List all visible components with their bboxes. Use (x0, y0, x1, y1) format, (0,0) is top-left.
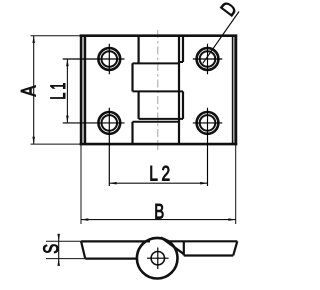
hole top-right inner (200, 51, 216, 67)
hole top-right outer (197, 48, 219, 70)
dimension B arrow left (81, 218, 88, 221)
hole top-left crosshair (63, 44, 125, 75)
hole top-left inner (102, 51, 118, 67)
dimension S arrow top (57, 234, 60, 241)
dimension A arrow down (32, 137, 35, 144)
profile right bar end slant (233, 241, 237, 255)
plate bottom edge (80, 143, 238, 146)
profile left bar bottom edge (85, 258, 137, 260)
hole bottom-right inner (200, 115, 216, 131)
svg-text:L 2: L 2 (149, 163, 170, 186)
dimension A arrow up (32, 36, 35, 43)
knuckle left outer line (segments 2,4) (131, 63, 133, 144)
hole bottom-left inner (102, 115, 118, 131)
left leaf outer edge (80, 35, 83, 146)
dimension L1 line (66, 59, 68, 123)
hole bottom-left outer (98, 112, 120, 134)
profile right bar left joint (183, 241, 185, 255)
S extension bottom (46, 258, 85, 260)
pin hole circle (151, 252, 164, 265)
S extension top (46, 240, 81, 242)
profile left bar top edge (81, 240, 150, 242)
pin hole crosshair (147, 248, 169, 270)
dimension L2 line (109, 182, 207, 184)
dimension B extension right (235, 145, 237, 224)
knuckle wrap slant (161, 237, 184, 254)
dimension B arrow right (228, 218, 235, 221)
left leaf inner edge (84, 36, 87, 144)
svg-text:B: B (154, 200, 164, 223)
svg-text:A: A (17, 86, 40, 97)
knuckle joint line 1 (133, 62, 184, 63)
knuckle joint line 2 (133, 90, 184, 92)
dimension A line (33, 36, 35, 144)
dimension S arrow bottom (57, 259, 60, 266)
svg-text:S: S (40, 244, 63, 254)
profile right bar bottom edge (184, 254, 233, 256)
svg-text:L 1: L 1 (47, 83, 70, 100)
knuckle right outer line (segments 1,3) (182, 36, 184, 119)
dimension L1 arrow up (66, 59, 69, 66)
profile right bar top edge (167, 240, 238, 242)
hole bottom-right crosshair + L2 extension (193, 108, 223, 186)
hole top-right crosshair (193, 44, 223, 75)
right leaf inner edge (232, 36, 234, 144)
knuckle left bend line (segments 1,3) (138, 36, 140, 119)
profile left bar end slant (81, 241, 85, 258)
right leaf outer edge (234, 35, 237, 146)
hole bottom-right outer (197, 112, 219, 134)
knuckle joint line 3 lower (133, 121, 180, 123)
hole top-left outer (98, 48, 120, 70)
dimension B line (81, 219, 236, 221)
plate top edge (80, 34, 238, 37)
dimension L2 arrow left (109, 182, 116, 185)
leader line D (203, 12, 239, 64)
centerline (pin axis, top view) (157, 30, 159, 150)
knuckle joint line 3 upper (139, 118, 183, 120)
dimension L2 arrow right (200, 182, 207, 185)
knuckle barrel circle (137, 238, 178, 279)
dimension A extension bottom (31, 143, 80, 145)
dimension S line (58, 234, 60, 263)
dimension L1 arrow down (66, 116, 69, 123)
hole bottom-left crosshair + L2 extension (63, 108, 125, 186)
svg-text:D: D (217, 0, 242, 21)
dimension A extension top (31, 35, 80, 37)
dimension B extension left (80, 145, 82, 224)
knuckle right bend line (continuous) (178, 36, 180, 144)
